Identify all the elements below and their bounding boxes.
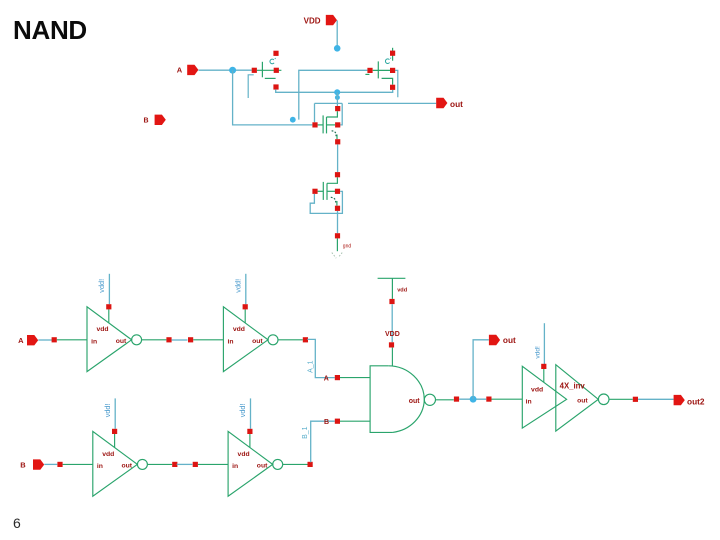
export B (lower) xyxy=(20,459,44,469)
node out junction xyxy=(334,89,340,95)
wire M2 drain stub xyxy=(395,70,397,97)
wire X3 out to X4 in xyxy=(177,463,193,465)
node floating pin dot xyxy=(290,117,296,123)
svg-text:vdd: vdd xyxy=(531,387,543,394)
svg-text:4X_inv: 4X_inv xyxy=(560,382,586,391)
power symbol vdd bar xyxy=(378,278,408,304)
wire out horizontal left xyxy=(315,102,343,104)
svg-text:out: out xyxy=(577,398,588,405)
ground xyxy=(332,233,352,258)
svg-text:out: out xyxy=(409,398,421,405)
nmos M3 xyxy=(312,106,340,144)
svg-text:VDD: VDD xyxy=(304,16,321,25)
wire M2 gate net L xyxy=(299,70,368,119)
pmos M1 xyxy=(252,51,282,90)
wire out horizontal right xyxy=(348,102,436,104)
svg-text:B: B xyxy=(324,419,329,426)
svg-text:A: A xyxy=(324,376,329,383)
inverter X3 xyxy=(57,398,177,496)
nand gate U1 xyxy=(324,342,459,432)
export A xyxy=(177,65,199,75)
svg-text:B: B xyxy=(143,118,148,125)
inverter X4 xyxy=(193,398,313,496)
inverter X1 xyxy=(52,274,172,372)
wire out corner to M3 drain xyxy=(340,103,342,125)
wire M4 gate-drain staple xyxy=(310,191,342,213)
inverter X5 4X_inv xyxy=(486,323,638,431)
svg-text:gnd: gnd xyxy=(343,244,352,250)
wire A down to M3 gate xyxy=(233,70,313,125)
node A junction xyxy=(229,67,236,74)
wire out net pmos drains xyxy=(276,89,393,92)
export out xyxy=(436,98,463,109)
export A (lower) xyxy=(18,335,38,345)
node out pin dot xyxy=(335,95,340,100)
wire A to M1 gate xyxy=(199,69,252,71)
title NAND xyxy=(13,15,87,46)
svg-text:in: in xyxy=(526,399,532,406)
svg-text:A_1: A_1 xyxy=(308,360,315,373)
wire VDD net to nand xyxy=(391,304,393,342)
wire VDD stem xyxy=(336,20,338,48)
wire net A_1 corner xyxy=(307,339,334,377)
svg-text:out: out xyxy=(450,99,463,109)
node VDD pin dot xyxy=(334,45,341,52)
svg-text:A: A xyxy=(177,66,183,75)
wire net B_1 corner xyxy=(311,421,335,462)
export out (mid) xyxy=(489,335,516,345)
export VDD xyxy=(304,15,337,25)
wire A to inverter X1 xyxy=(38,339,52,341)
page number 6 xyxy=(13,515,21,531)
svg-text:vdd: vdd xyxy=(397,288,408,294)
wire M1 well hook xyxy=(248,75,254,98)
svg-text:vdd!: vdd! xyxy=(535,346,542,359)
svg-text:B_1: B_1 xyxy=(302,426,309,439)
svg-text:VDD: VDD xyxy=(385,331,400,338)
export B (upper) xyxy=(143,115,165,125)
wire out export riser xyxy=(473,340,489,399)
inverter X2 xyxy=(188,274,308,372)
wire M3 source to M4 drain xyxy=(337,145,339,173)
wire B to inverter X3 xyxy=(44,463,57,465)
wire M3 gate riser xyxy=(314,103,316,122)
svg-text:out: out xyxy=(503,335,516,345)
nmos M4 xyxy=(312,172,340,211)
wire X1 out to X2 in xyxy=(172,339,188,341)
pmos M2 xyxy=(365,48,395,90)
wire X5 out to out2 xyxy=(638,398,673,400)
export out2 xyxy=(674,395,705,407)
wire M4 source to gnd xyxy=(337,211,339,233)
wire out drop to M3 drain xyxy=(336,92,338,106)
svg-text:out2: out2 xyxy=(687,397,705,407)
node out2 junction xyxy=(470,396,477,403)
svg-text:B: B xyxy=(20,460,26,469)
svg-text:A: A xyxy=(18,336,24,345)
wire nand out to X5 xyxy=(459,398,486,400)
